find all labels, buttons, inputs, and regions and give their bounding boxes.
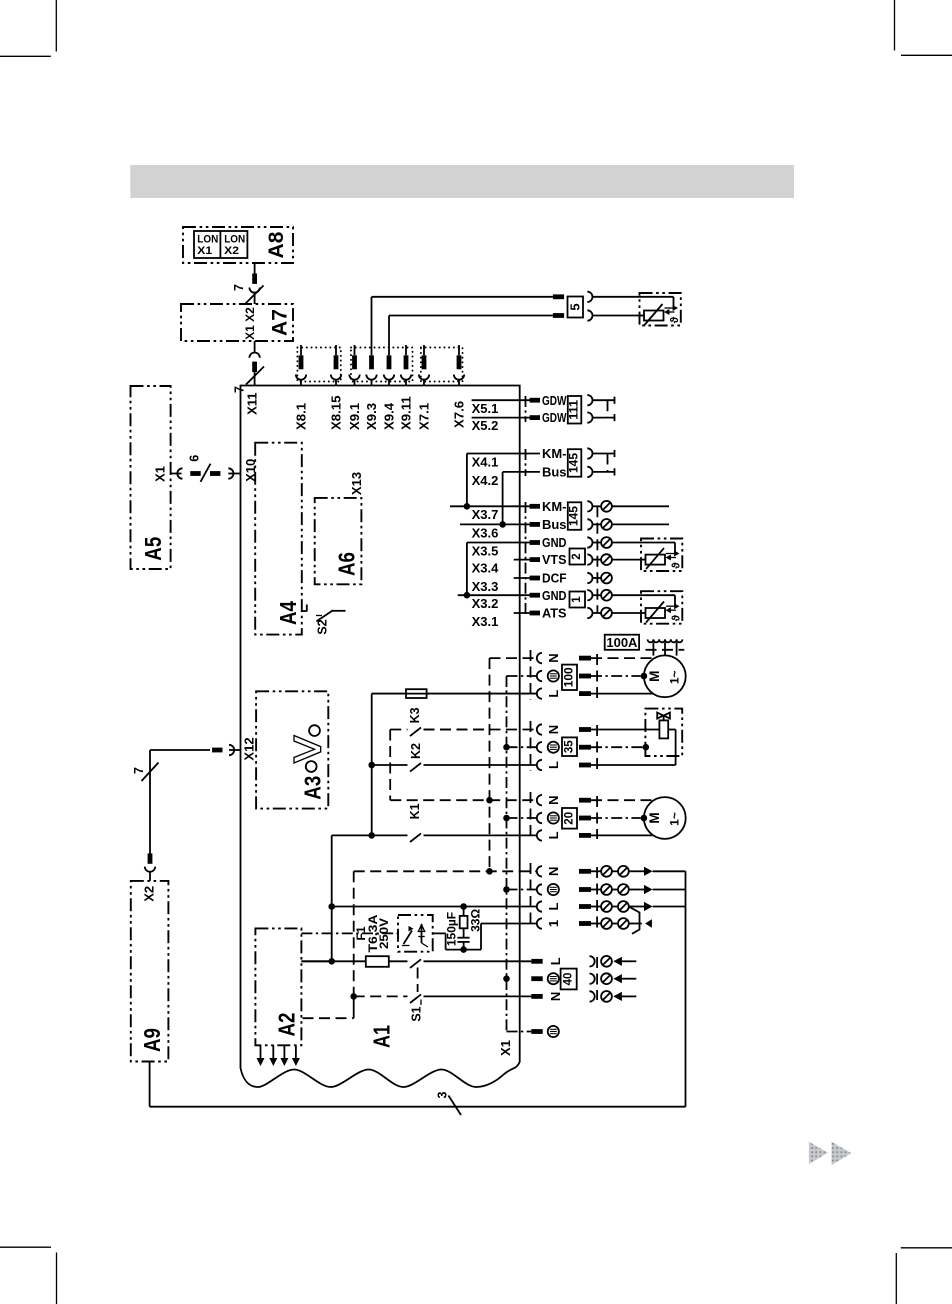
svg-text:X5.1: X5.1	[472, 401, 499, 416]
burner output 96 terminals with screw terminals and arrows	[531, 863, 686, 934]
svg-text:1: 1	[546, 920, 561, 927]
svg-text:N: N	[546, 653, 561, 662]
pump output 100 terminals	[372, 650, 597, 700]
svg-text:KM-: KM-	[542, 499, 567, 514]
svg-text:X7.1: X7.1	[417, 403, 432, 430]
svg-text:X3.5: X3.5	[472, 543, 499, 558]
grey page-turn arrows bottom-right	[809, 1142, 852, 1165]
svg-text:A4: A4	[275, 601, 301, 625]
mains switch S1 (2-pole)	[354, 959, 532, 1021]
svg-text:N: N	[546, 725, 561, 734]
svg-text:X1 X2: X1 X2	[243, 307, 257, 340]
wire A7 to controller X11, cable mark 7	[233, 341, 265, 393]
svg-text:L: L	[546, 690, 561, 698]
svg-text:100: 100	[564, 667, 576, 687]
power supply 40 terminals	[531, 956, 636, 1002]
svg-text:X7.6: X7.6	[452, 401, 467, 428]
svg-text:LON: LON	[224, 233, 245, 245]
svg-text:S1: S1	[410, 1006, 424, 1021]
valve output 35 terminals	[424, 721, 598, 771]
svg-text:A2: A2	[273, 1013, 299, 1037]
svg-text:ϑ: ϑ	[671, 614, 683, 621]
flue gas sensor (5)	[640, 293, 682, 326]
svg-text:A9: A9	[139, 1028, 165, 1052]
page corner mark bottom-right	[896, 1248, 952, 1304]
svg-text:LON: LON	[197, 233, 218, 245]
boiler temperature sensor (VTS)	[612, 539, 683, 572]
svg-text:N: N	[546, 796, 561, 805]
relay contact K2	[372, 743, 423, 772]
svg-text:X8.15: X8.15	[329, 396, 344, 430]
expansion module A4	[255, 443, 302, 635]
connector pins X8/X9/X7 on board top edge	[294, 345, 467, 430]
page corner mark top-left	[0, 0, 56, 56]
svg-text:A3: A3	[299, 776, 325, 800]
wire from A9 to output loop	[150, 871, 686, 1106]
svg-text:3: 3	[436, 1091, 450, 1098]
page corner mark top-right	[895, 0, 952, 55]
svg-text:5: 5	[568, 303, 583, 310]
svg-text:M: M	[647, 812, 662, 823]
svg-text:GND: GND	[542, 535, 567, 550]
KM-Bus wires to external bus	[612, 506, 669, 524]
svg-text:K1: K1	[408, 803, 422, 819]
svg-text:X3.4: X3.4	[472, 561, 500, 576]
svg-text:X3.2: X3.2	[472, 596, 499, 611]
svg-text:S2: S2	[316, 619, 330, 634]
pump output 20 terminals	[390, 792, 597, 841]
operating unit A7	[181, 304, 293, 341]
svg-text:A5: A5	[140, 537, 166, 561]
wires X9.3/X9.4 up to flue-gas sensor plug	[372, 297, 553, 345]
magnetic valve (35)	[591, 709, 682, 765]
svg-text:X13: X13	[349, 472, 364, 495]
module A5	[131, 386, 171, 569]
svg-text:2: 2	[571, 553, 583, 559]
svg-text:K3: K3	[408, 707, 422, 723]
switch S2	[302, 605, 346, 635]
signal wires X5.1/X5.2 to GDW plug 111	[472, 400, 540, 433]
svg-text:X3.7: X3.7	[472, 507, 499, 522]
svg-text:100A: 100A	[606, 635, 638, 650]
svg-text:KM-: KM-	[542, 446, 567, 461]
svg-text:N: N	[546, 867, 561, 876]
svg-text:40: 40	[563, 973, 575, 986]
svg-text:VTS: VTS	[542, 552, 567, 567]
svg-text:N: N	[548, 992, 563, 1001]
reference mark 3	[436, 1091, 462, 1115]
remote module A9	[131, 881, 169, 1062]
svg-text:A1: A1	[368, 1025, 394, 1048]
svg-text:Bus: Bus	[542, 465, 567, 480]
svg-text:A8: A8	[265, 231, 288, 258]
svg-text:35: 35	[564, 740, 576, 753]
wire A2 to L row	[301, 960, 331, 962]
wire to X12 with plug-socket, cable mark 7	[132, 745, 241, 854]
controller board A1 outline	[241, 386, 520, 1088]
svg-text:X3.6: X3.6	[472, 525, 499, 540]
LON module A8	[183, 227, 293, 263]
svg-text:X9.11: X9.11	[399, 396, 414, 430]
svg-text:ϑ: ϑ	[671, 562, 683, 569]
svg-text:7: 7	[132, 767, 146, 774]
svg-text:X4.1: X4.1	[472, 454, 499, 469]
svg-text:7: 7	[232, 284, 246, 291]
svg-text:X4.2: X4.2	[472, 473, 499, 488]
heating circuit pump motor (100)	[591, 635, 686, 697]
svg-text:GDW: GDW	[542, 410, 567, 425]
neutral bus (dashed) inside board	[486, 658, 493, 875]
svg-text:DCF: DCF	[542, 571, 567, 586]
svg-text:X1: X1	[153, 466, 168, 482]
svg-text:L: L	[548, 957, 563, 965]
inside wires to 96 group	[332, 871, 537, 949]
svg-text:6: 6	[188, 455, 202, 462]
page corner mark bottom-left	[0, 1247, 57, 1304]
circulation pump motor (20)	[591, 797, 686, 839]
svg-text:1: 1	[571, 596, 583, 603]
wires X4.1/X4.2 and plug 145 (KM-Bus)	[467, 446, 615, 524]
grey header bar	[130, 165, 794, 198]
svg-text:L: L	[546, 831, 561, 839]
svg-text:X1: X1	[197, 245, 212, 257]
A2 output arrows	[257, 1045, 300, 1066]
connector housings (dotted) over pin row	[297, 348, 462, 382]
svg-text:M: M	[647, 671, 662, 682]
terminal block X3 rows with screw terminals	[450, 499, 612, 629]
svg-text:GND: GND	[542, 588, 567, 603]
svg-text:L: L	[546, 761, 561, 769]
fuse F1 T6,3A 250V	[301, 914, 407, 967]
svg-text:GDW: GDW	[542, 393, 567, 408]
svg-text:ϑ: ϑ	[669, 316, 681, 323]
svg-text:X9.3: X9.3	[364, 403, 379, 430]
svg-text:X2: X2	[224, 245, 239, 257]
module A6	[315, 472, 364, 584]
svg-text:X1: X1	[498, 1040, 513, 1056]
protective earth terminal X1	[498, 1026, 559, 1056]
relay contact K3	[390, 707, 489, 800]
snubber: capacitor 150uF and resistor 33R	[433, 903, 483, 953]
svg-text:Bus: Bus	[542, 517, 567, 532]
svg-text:X12: X12	[241, 737, 256, 760]
wire X2 into A9	[145, 853, 155, 881]
svg-text:X11: X11	[245, 392, 260, 414]
svg-text:1~: 1~	[668, 812, 682, 826]
svg-text:X2: X2	[141, 886, 156, 902]
svg-text:X3.3: X3.3	[472, 579, 499, 594]
svg-text:L: L	[546, 902, 561, 910]
svg-text:X5.2: X5.2	[472, 418, 499, 433]
power supply unit A2	[255, 928, 301, 1045]
svg-text:145: 145	[569, 452, 581, 473]
plug 111 (GDW)	[526, 393, 615, 425]
svg-text:ATS: ATS	[542, 606, 567, 621]
wire A8 to A7 with plug-socket, cable mark 7	[232, 263, 264, 304]
svg-text:A6: A6	[333, 552, 359, 576]
plug 5 (flue gas sensor connector)	[553, 292, 645, 321]
L feed with pump speed element	[368, 689, 536, 839]
svg-text:X9.4: X9.4	[382, 402, 397, 430]
svg-text:K2: K2	[409, 743, 423, 759]
svg-text:X8.1: X8.1	[294, 403, 309, 430]
optocoupler / burner control switch	[398, 915, 433, 952]
svg-text:33Ω: 33Ω	[468, 909, 482, 932]
earth bus (dash-dot) inside board	[503, 676, 510, 1032]
svg-text:1~: 1~	[668, 670, 682, 684]
dashed neutral branch to supply	[303, 871, 358, 1018]
svg-text:145: 145	[569, 505, 581, 526]
control lead A2 to optocoupler	[301, 932, 398, 934]
svg-text:7: 7	[233, 386, 247, 393]
svg-text:111: 111	[569, 399, 581, 420]
svg-text:A7: A7	[269, 309, 292, 336]
relay contact K1	[328, 803, 421, 964]
display module A3 with logo	[256, 691, 328, 808]
connector X1-X10 between A5 and controller, cable mark 6	[153, 455, 258, 482]
svg-text:X3.1: X3.1	[472, 614, 499, 629]
svg-text:X9.1: X9.1	[347, 403, 362, 430]
svg-text:20: 20	[564, 812, 576, 825]
outside temperature sensor (ATS)	[612, 591, 683, 624]
